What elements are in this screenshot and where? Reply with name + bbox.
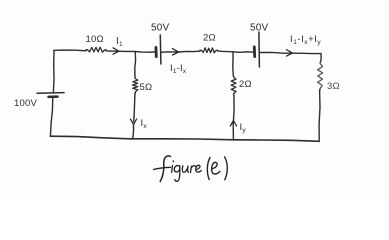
resistor R4 2ohm shunt	[231, 76, 236, 96]
battery V2 50V short plate	[154, 47, 157, 56]
wire top-left segment	[54, 49, 86, 52]
battery V3 50V long plate	[258, 32, 261, 67]
resistor R5 3ohm	[318, 62, 323, 90]
wire after V3 with arrow	[260, 52, 321, 53]
wire right vertical upper	[320, 54, 323, 62]
resistor R3 2ohm series	[200, 48, 218, 53]
wire branch Ix upper	[134, 52, 137, 78]
battery V3 50V short plate	[253, 47, 256, 57]
arrowhead current Iy up	[230, 121, 236, 127]
arrowhead current I1-Ix+Iy	[287, 50, 293, 56]
resistor R2 5ohm	[133, 77, 138, 93]
svg-text:5Ω: 5Ω	[140, 82, 153, 93]
arrowhead current I1	[113, 48, 119, 54]
wire branch Iy lower	[232, 95, 235, 140]
svg-text:10Ω: 10Ω	[86, 34, 104, 45]
caption figure (e)	[160, 156, 170, 182]
wire branch Ix lower	[134, 93, 135, 122]
svg-text:50V: 50V	[151, 23, 170, 34]
svg-text:2Ω: 2Ω	[203, 33, 216, 44]
svg-text:100V: 100V	[14, 98, 37, 109]
battery V2 50V long plate	[159, 35, 162, 64]
svg-text:3Ω: 3Ω	[327, 81, 340, 92]
wire top segment to V3	[218, 51, 254, 52]
resistor R1 10ohm	[86, 47, 106, 52]
battery V1 100V short plate	[49, 95, 58, 98]
wire left vertical lower	[50, 97, 52, 136]
wire top segment with I1 arrow	[106, 51, 155, 52]
wire branch Ix tail to bottom	[132, 125, 135, 139]
wire bottom	[50, 136, 319, 141]
arrowhead current Ix down	[130, 119, 136, 125]
battery V1 100V long plate	[37, 92, 64, 95]
svg-text:50V: 50V	[250, 23, 269, 34]
svg-text:2Ω: 2Ω	[239, 79, 252, 90]
wire right vertical lower	[318, 90, 321, 141]
wire branch Iy upper	[232, 52, 235, 76]
arrowhead current I1-Ix	[173, 49, 179, 55]
wire left vertical upper	[52, 50, 55, 92]
wire after V2 with arrow	[162, 51, 201, 52]
